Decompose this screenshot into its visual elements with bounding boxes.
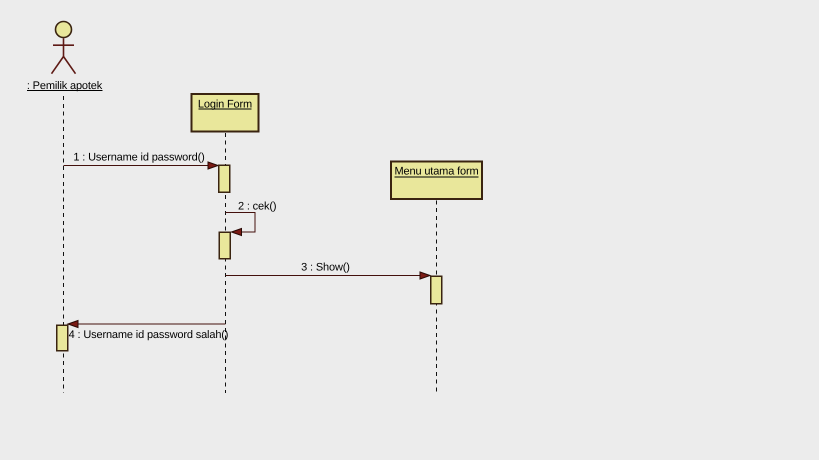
svg-text:4 : Username id password salah: 4 : Username id password salah() [69, 329, 229, 341]
svg-text:3 : Show(): 3 : Show() [301, 262, 350, 274]
svg-text:2 : cek(): 2 : cek() [238, 201, 276, 213]
svg-text:Menu utama form: Menu utama form [395, 166, 479, 178]
svg-text:1 : Username id password(): 1 : Username id password() [73, 152, 204, 164]
